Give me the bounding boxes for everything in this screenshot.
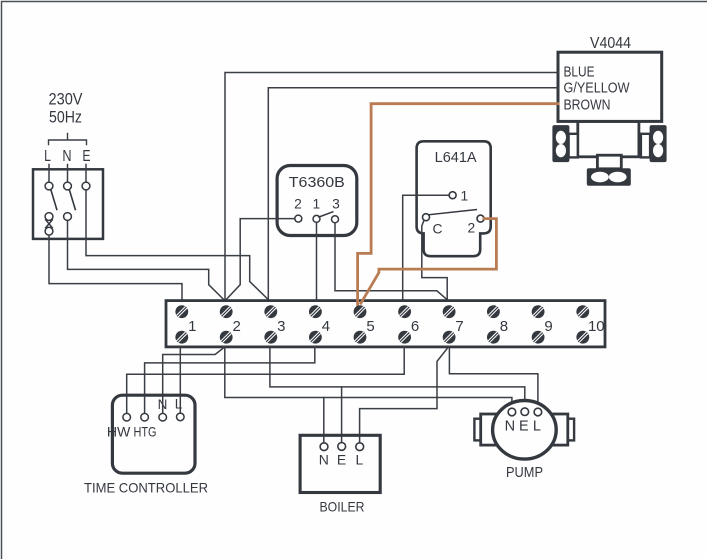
cylinder thermostat L641A body (417, 141, 491, 256)
wire boiler E tap (341, 387, 343, 443)
cylinder stat terminal C (423, 214, 430, 221)
wire thermostat 2 to terminal 2 (225, 219, 295, 301)
svg-text:N: N (158, 397, 168, 412)
screw terminal 9 top (532, 305, 545, 318)
svg-text:PUMP: PUMP (506, 465, 543, 481)
pump flange right inner (552, 414, 568, 445)
time controller terminal HW (123, 413, 131, 421)
svg-text:L641A: L641A (435, 150, 477, 166)
pump body (493, 401, 557, 460)
thermostat switch arm (319, 212, 333, 217)
screw terminal 4 top (309, 305, 322, 318)
svg-text:2: 2 (233, 318, 241, 335)
terminal screws bottom row (175, 331, 589, 344)
screw terminal 6 top (398, 305, 411, 318)
wire BLUE valve to terminal 2 (225, 73, 558, 301)
svg-text:E: E (337, 452, 346, 468)
wire E lead-in (85, 165, 87, 183)
time controller terminal L (177, 413, 185, 421)
wire earth bus terminal 3 to pump E (270, 347, 525, 408)
wire boiler N tap (323, 398, 325, 443)
wire L lead-in (48, 165, 50, 183)
wire G/YELLOW valve to terminal 3 (268, 88, 558, 301)
screw terminal 10 top (576, 305, 589, 318)
switch arm L (51, 190, 57, 210)
pump terminal E (521, 408, 529, 416)
svg-text:8: 8 (500, 318, 508, 335)
time controller terminal N (159, 413, 167, 421)
svg-text:10: 10 (588, 318, 605, 335)
screw terminal 5 top (354, 305, 367, 318)
svg-text:V4044: V4044 (590, 35, 631, 52)
svg-text:6: 6 (411, 318, 419, 335)
wire thermostat 3 to terminal 7 (335, 223, 448, 301)
cylinder stat terminal 2 (477, 215, 484, 222)
screw terminal 9 bottom (532, 331, 545, 344)
svg-text:4: 4 (322, 318, 330, 335)
svg-text:G/YELLOW: G/YELLOW (564, 80, 631, 97)
svg-text:BOILER: BOILER (320, 498, 365, 514)
screw terminal 8 top (487, 305, 500, 318)
brown wire valve BROWN to terminal 5 (358, 104, 558, 305)
svg-text:T6360B: T6360B (289, 175, 345, 191)
terminal screws top row (175, 305, 589, 318)
switch contact L top (45, 182, 53, 190)
svg-text:2: 2 (294, 197, 302, 212)
screw terminal 1 top (175, 305, 188, 318)
boiler terminal N (320, 443, 328, 451)
svg-text:2: 2 (468, 221, 476, 236)
switch contact L bottom (45, 227, 53, 235)
pump terminal L (534, 408, 542, 416)
wire neutral bus terminal 2 to pump N (225, 347, 512, 408)
pump flange right outer (568, 419, 574, 441)
svg-text:230V: 230V (49, 91, 83, 109)
screw terminal 10 bottom (576, 331, 589, 344)
svg-text:L: L (533, 419, 541, 435)
wire cylinder stat C to terminal 7 (422, 220, 447, 300)
wire time controller HTG to terminal 4 (145, 347, 315, 413)
screw terminal 7 top (443, 305, 456, 318)
supply bracket (49, 134, 87, 145)
wire terminal 7 to boiler L (360, 347, 449, 443)
svg-text:1: 1 (461, 189, 469, 204)
svg-text:9: 9 (544, 318, 552, 335)
screw terminal 2 top (220, 305, 233, 318)
svg-text:3: 3 (277, 318, 285, 335)
svg-text:3: 3 (332, 197, 340, 212)
terminal numbers 1-10 (188, 318, 605, 335)
cylinder stat switch arm (429, 210, 476, 215)
wire terminal 7 to pump L (449, 347, 538, 408)
brown wire cylinder stat 2 to terminal 5 (361, 219, 497, 304)
svg-text:7: 7 (455, 318, 463, 335)
svg-text:N: N (62, 148, 71, 165)
svg-text:1: 1 (312, 197, 320, 212)
wire thermostat 1 to terminal 4 (316, 222, 318, 300)
svg-text:50Hz: 50Hz (49, 109, 82, 127)
screw terminal 5 bottom (354, 331, 367, 344)
wire N lead-in (67, 165, 69, 183)
svg-text:E: E (519, 419, 529, 435)
screw terminal 7 bottom (443, 331, 456, 344)
room thermostat T6360B body (277, 166, 357, 236)
wire time controller N to terminal 2 (163, 347, 225, 413)
valve body (553, 121, 666, 185)
boiler body (300, 435, 380, 492)
time controller body (112, 395, 195, 473)
screw terminal 3 bottom (264, 331, 277, 344)
pump flange left inner (481, 414, 497, 445)
svg-text:N: N (319, 452, 329, 468)
cylinder stat terminal 1 (449, 192, 456, 199)
pump terminal N (508, 408, 516, 416)
switch contact N top (64, 182, 72, 190)
wire N supply to terminal 2 (68, 220, 225, 300)
pump flange left outer (474, 419, 480, 441)
switch contact N lower (64, 213, 72, 221)
thermostat terminal 3 (332, 216, 339, 223)
wire time controller L to terminal 1 (179, 347, 181, 413)
wire cylinder stat 1 to terminal 6 (403, 195, 450, 300)
svg-text:1: 1 (188, 318, 196, 335)
screw terminal 4 bottom (309, 331, 322, 344)
svg-text:5: 5 (366, 318, 374, 335)
switch contact E top (82, 182, 90, 190)
wire E supply to terminal 3 (86, 190, 269, 301)
fuse link L (46, 220, 53, 228)
supply isolator box (33, 169, 103, 239)
supply terminal labels L N E (44, 148, 91, 165)
svg-text:BLUE: BLUE (564, 63, 595, 80)
terminal strip (166, 301, 605, 347)
supply voltage label 230V 50Hz (49, 91, 83, 127)
svg-text:HTG: HTG (134, 424, 157, 440)
svg-text:C: C (433, 222, 443, 237)
time controller terminal HTG (141, 413, 149, 421)
switch contact L lower (45, 213, 53, 221)
switch arm N (69, 190, 75, 210)
screw terminal 2 bottom (220, 331, 233, 344)
svg-text:N: N (505, 419, 515, 435)
svg-text:E: E (82, 148, 90, 165)
svg-text:L: L (175, 397, 183, 412)
screw terminal 1 bottom (175, 331, 188, 344)
screw terminal 8 bottom (487, 331, 500, 344)
svg-text:BROWN: BROWN (564, 96, 611, 113)
thermostat terminal 1 (313, 215, 320, 222)
screw terminal 3 top (264, 305, 277, 318)
wire L supply to terminal 1 (49, 235, 182, 300)
wire time controller HW to terminal 6 (127, 347, 405, 413)
thermostat terminal 2 (295, 215, 302, 222)
screw terminal 6 bottom (398, 331, 411, 344)
svg-text:L: L (356, 452, 364, 468)
svg-text:HW: HW (107, 424, 131, 440)
motorised valve V4044 head (558, 52, 662, 121)
boiler terminal E (338, 443, 346, 451)
svg-text:L: L (44, 148, 51, 165)
boiler terminal L (356, 443, 364, 451)
svg-text:TIME CONTROLLER: TIME CONTROLLER (84, 480, 208, 496)
